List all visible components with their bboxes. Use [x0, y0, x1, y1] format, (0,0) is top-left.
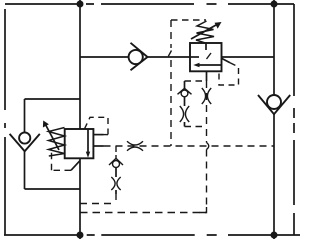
wire bypass stem lower [184, 122, 186, 127]
pilot line RV1 vent dashed y20 [171, 19, 206, 21]
pilot line x206 dashed upper [206, 81, 208, 143]
check valve V5 branch (ball) [113, 161, 120, 168]
wire bottom rail right solid [274, 234, 300, 236]
pilot line RV1 vertical x171 lower [170, 60, 172, 146]
check valve V2 middle (seat) [131, 43, 148, 71]
check valve V1 left (seat) [10, 134, 40, 151]
check valve V4 bypass (ball) [181, 90, 188, 97]
wire main vertical line B upper [273, 0, 275, 95]
wire left frame vertical [4, 9, 6, 235]
wire horizontal line y189 [25, 188, 81, 190]
orifice O1 on x206 line [202, 88, 211, 104]
check valve V1 left (ball) [19, 132, 30, 143]
orifice O2 bypass [180, 106, 189, 122]
wire horizontal line y99 [25, 98, 81, 100]
pilot line bypass bottom y126 [185, 126, 207, 128]
counterbalance valve CB1 spring [49, 128, 65, 157]
wire right frame vertical [293, 4, 295, 235]
wire top rail dashed middle [86, 3, 273, 5]
wire CB1 upper stub dashed link [104, 134, 109, 136]
pilot line x171 crossing jog [168, 51, 171, 57]
wire bypass stem middle [184, 97, 186, 106]
pilot line y212 dashed [80, 212, 207, 214]
wire vertical line x24 lower [24, 151, 26, 189]
wire CB1 upper right port stub [93, 134, 103, 136]
wire main vertical line A lower [79, 158, 81, 239]
pilot line branch x116 dashed upper [115, 146, 117, 155]
pilot line RV1 vertical x171 upper [170, 20, 172, 48]
counterbalance valve CB1 adjustment arrow [46, 126, 59, 151]
pilot line CB1 bottom diagonal [71, 161, 80, 171]
pilot line bypass top y81 [185, 80, 207, 82]
pilot line CB1 top dashed [85, 117, 109, 134]
node top-left junction dot [77, 1, 84, 8]
wire main vertical line A upper [79, 0, 81, 129]
relief valve RV1 internal inlet stub [190, 56, 199, 58]
check valve V4 bypass (seat) [178, 88, 192, 94]
wire bottom rail dashed middle [87, 234, 273, 236]
counterbalance valve CB1 internal flow arrow [87, 130, 89, 153]
wire branch stem [115, 168, 117, 178]
pilot line x206 corner piece [200, 207, 207, 213]
node top-right junction dot [271, 1, 278, 8]
wire bottom rail left solid [4, 234, 80, 236]
pilot line x206 dashed lower [206, 150, 208, 207]
pilot line x206 hop over y146 [207, 143, 209, 150]
pilot line branch x116 dashed lower [115, 194, 117, 204]
wire horizontal line y57 [80, 56, 274, 58]
wire CB1 lower right port stub [93, 145, 103, 147]
orifice O3 on y146 [127, 141, 143, 151]
wire vertical line x24 upper [24, 99, 26, 133]
relief valve RV1 internal flow arrow [199, 64, 222, 66]
counterbalance valve CB1 body [65, 129, 94, 158]
pilot line CB1 bottom dashed [52, 153, 72, 171]
pilot line y203 dashed [80, 203, 116, 205]
wire main vertical line B lower [273, 114, 275, 239]
node bottom-left junction dot [77, 232, 84, 239]
check valve V5 branch (seat) [109, 158, 123, 165]
wire RV1 bottom port stub [206, 71, 208, 81]
relief valve RV1 adjustment arrow [191, 25, 217, 39]
orifice O4 branch [111, 155, 120, 190]
wire branch stem lower [115, 190, 117, 194]
pilot line RV1 right diagonal solid [222, 58, 231, 62]
wire bypass stem upper [184, 81, 186, 88]
pilot line RV1 right dashed loop [219, 63, 239, 85]
relief valve RV1 internal stem [205, 43, 207, 50]
relief valve RV1 internal pilot dash [207, 53, 212, 59]
check valve V3 right (seat) [258, 95, 290, 114]
relief valve RV1 spring [196, 21, 214, 43]
relief valve RV1 body [190, 43, 222, 71]
wire top rail right solid [274, 3, 294, 5]
node bottom-right junction dot [271, 232, 278, 239]
pilot line y146 dashed [104, 145, 275, 147]
check valve V2 middle (ball) [129, 50, 143, 64]
wire top rail left solid [5, 3, 80, 5]
check valve V3 right (ball) [267, 95, 281, 109]
